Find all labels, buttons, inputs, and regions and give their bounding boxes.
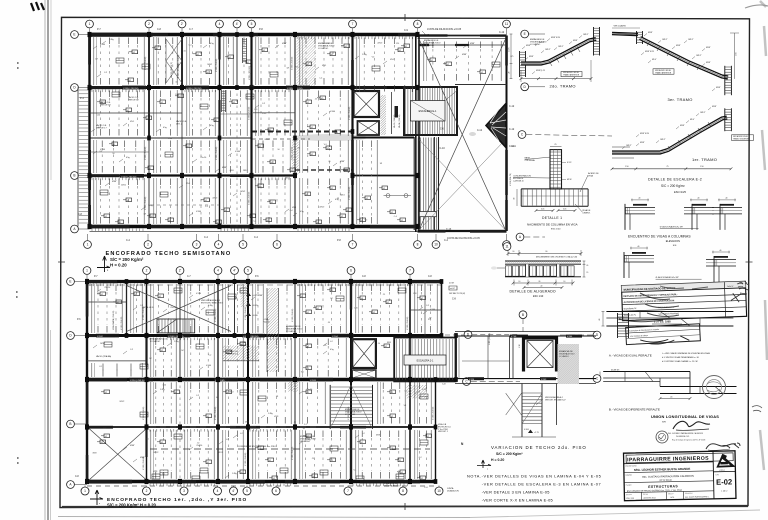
svg-text:V-1: V-1 <box>301 372 304 374</box>
svg-text:V-1: V-1 <box>162 473 165 475</box>
svg-text:1 Ølg: 1 Ølg <box>109 39 114 41</box>
svg-text:ESTRUCTURAS: ESTRUCTURAS <box>648 484 678 489</box>
bottom plan: big X brace panel <box>127 286 232 332</box>
svg-text:C-10: C-10 <box>440 147 446 150</box>
svg-text:VS-1: VS-1 <box>390 59 394 61</box>
svg-text:V-108: V-108 <box>511 336 517 338</box>
svg-text:S/S: S/S <box>673 245 677 247</box>
svg-text:1Ø1/2": 1Ø1/2" <box>545 49 551 51</box>
svg-text:Ø3/8": Ø3/8" <box>282 43 287 45</box>
svg-text:C-2: C-2 <box>208 354 211 356</box>
svg-text:.25: .25 <box>293 422 296 424</box>
svg-text:V-103 (.25X.60): V-103 (.25X.60) <box>143 456 145 470</box>
svg-text:ELEVACION: ELEVACION <box>666 240 680 243</box>
encuentro vigas a columnas: left corner detail <box>633 204 647 206</box>
svg-text:L-2: L-2 <box>226 439 229 441</box>
detalle 1: grid bubble C leader <box>518 131 526 139</box>
svg-text:VACIO (2RA.BA): VACIO (2RA.BA) <box>96 355 111 358</box>
svg-text:3: 3 <box>196 243 198 247</box>
svg-text:LOSA: LOSA <box>263 318 269 321</box>
svg-text:5: 5 <box>242 243 244 247</box>
svg-text:4': 4' <box>233 269 236 273</box>
bottom plan: grid bubbles bottom row <box>81 487 89 495</box>
engineer signature scribble <box>673 421 710 429</box>
stair section 2do tramo: ramp <box>521 39 596 64</box>
top plan: beam under shafts <box>353 137 415 139</box>
svg-text:JUNTA: JUNTA <box>447 487 454 490</box>
svg-text:1.20: 1.20 <box>354 308 358 310</box>
svg-text:V-304: V-304 <box>330 111 335 113</box>
svg-text:Ø3/8": Ø3/8" <box>648 32 653 34</box>
svg-text:+2.75: +2.75 <box>534 432 539 434</box>
svg-text:VER CUADRO: VER CUADRO <box>614 25 627 28</box>
svg-text:.25: .25 <box>328 161 331 163</box>
svg-text:Ø: ADICIONALES Ø= 3/8": Ø: ADICIONALES Ø= 3/8" <box>656 276 680 279</box>
svg-text:VA-14 (.25X.50): VA-14 (.25X.50) <box>398 114 401 128</box>
top plan: row D beam labels <box>122 86 146 90</box>
svg-text:Ø3/8": Ø3/8" <box>712 106 717 108</box>
top plan: beam row A (bottom chord) <box>90 225 418 229</box>
detalle 1: column shaft <box>550 150 562 189</box>
svg-text:Ø tg: Ø tg <box>210 124 214 127</box>
svg-text:2': 2' <box>181 22 184 26</box>
top plan: grid bubbles top row <box>86 20 94 28</box>
svg-text:V-110: V-110 <box>469 379 475 381</box>
stair section 2do tramo: step ticks on ramp <box>549 47 580 66</box>
svg-text:V-303 (.25X.60): V-303 (.25X.60) <box>145 56 147 70</box>
bottom plan: column line 1 (left edge) <box>86 282 88 482</box>
svg-text:11: 11 <box>505 245 509 249</box>
svg-text:-VER CORTE X-X EN LAMINA E-05: -VER CORTE X-X EN LAMINA E-05 <box>482 498 553 503</box>
top plan: column line 2' <box>181 35 183 88</box>
bottom plan: annotation clutter <box>100 292 106 296</box>
svg-text:NACIMIENTO DE COLUMNA EN VIGA: NACIMIENTO DE COLUMNA EN VIGA <box>527 222 578 226</box>
svg-text:Ø3/8: Ø3/8 <box>230 170 234 172</box>
svg-text:.60: .60 <box>514 198 516 200</box>
svg-text:V-106: V-106 <box>524 429 529 431</box>
bottom plan: row B dashed continuation <box>150 426 320 428</box>
bottom plan: beam row E (top chord) <box>87 280 442 283</box>
svg-text:DIBUJO: DIBUJO <box>668 493 674 495</box>
scan artifact: left margin dots <box>16 63 19 463</box>
svg-text:7: 7 <box>409 269 411 273</box>
svg-text:C-4: C-4 <box>319 77 322 79</box>
svg-text:1 Ølg: 1 Ølg <box>268 413 273 415</box>
top plan: grid bubbles left column <box>71 31 79 39</box>
svg-text:1 DE 2: 1 DE 2 <box>721 490 728 492</box>
variacion: bottom ticks <box>512 436 556 438</box>
svg-text:B: B <box>73 174 75 178</box>
svg-text:V-303 (.25X.60): V-303 (.25X.60) <box>292 146 294 160</box>
svg-text:ING. OMAR IPARRAGUIRRE C.: ING. OMAR IPARRAGUIRRE C. <box>685 495 710 499</box>
svg-text:V-104: V-104 <box>196 293 201 295</box>
svg-text:Ø1/4": Ø1/4" <box>652 59 657 61</box>
top plan: label box on treads <box>419 212 436 217</box>
top plan: left edge hatched strip <box>77 88 79 227</box>
svg-text:8: 8 <box>417 243 419 247</box>
svg-text:V-303 (.25X.60): V-303 (.25X.60) <box>216 58 218 72</box>
svg-text:Ø3/8" Ø.25: Ø3/8" Ø.25 <box>645 51 654 53</box>
svg-text:ESC 1/10: ESC 1/10 <box>533 295 544 298</box>
variacion: bubble C right <box>593 375 601 383</box>
svg-text:.10: .10 <box>518 281 520 283</box>
svg-text:VS-1: VS-1 <box>186 183 190 185</box>
svg-text:Ø3/8": Ø3/8" <box>130 445 135 447</box>
svg-text:V-304: V-304 <box>100 44 105 46</box>
svg-text:1 Ølg: 1 Ølg <box>362 54 367 56</box>
bottom plan: axis arrow <box>90 490 103 505</box>
svg-text:1Ø1/2": 1Ø1/2" <box>539 42 545 44</box>
svg-text:V-103 (.25X.60): V-103 (.25X.60) <box>245 306 247 320</box>
bottom plan: column line 8 <box>409 282 411 482</box>
svg-text:V-303 (.25X.60): V-303 (.25X.60) <box>216 146 218 160</box>
svg-text:V-3: V-3 <box>324 144 327 146</box>
svg-text:Ø tg: Ø tg <box>163 126 167 129</box>
svg-text:2Ø1/2: 2Ø1/2 <box>207 64 212 66</box>
svg-text:DETALLE 1: DETALLE 1 <box>542 216 562 220</box>
svg-text:EMPALMES DE: EMPALMES DE <box>530 38 545 41</box>
top plan: annex interior line y84 <box>455 84 507 86</box>
bottom plan: column line 2 <box>146 282 148 482</box>
bottom plan: lower-left X panel <box>89 429 147 481</box>
svg-text:1Ø1/2": 1Ø1/2" <box>696 55 702 57</box>
svg-text:.50: .50 <box>197 443 200 445</box>
svg-text:1.20: 1.20 <box>175 94 179 96</box>
bottom plan: stair treads below shaft <box>329 385 331 429</box>
svg-text:.20: .20 <box>509 72 511 74</box>
svg-text:Ø3/8": Ø3/8" <box>526 45 531 47</box>
beam splice B: upper beam lines <box>603 371 690 373</box>
svg-text:H = 0.20: H = 0.20 <box>491 458 504 462</box>
svg-text:Ø3/8"@.25: Ø3/8"@.25 <box>536 70 545 72</box>
svg-text:.10: .10 <box>512 251 514 253</box>
svg-text:Ø3/8": Ø3/8" <box>462 54 467 56</box>
svg-text:VER DET. 7: VER DET. 7 <box>96 128 108 130</box>
svg-text:VIGA: VIGA <box>588 174 593 177</box>
svg-text:VIGUETA A TODO: VIGUETA A TODO <box>150 338 167 341</box>
stair section 1er tramo: left detail marks <box>612 147 634 158</box>
bottom plan: right edge stair room <box>455 336 457 382</box>
bottom plan: row C beam labels <box>129 378 153 382</box>
top plan: elevator shaft lower <box>358 121 380 135</box>
svg-text:V-1: V-1 <box>404 405 407 407</box>
svg-text:Ø3/8: Ø3/8 <box>387 342 391 344</box>
svg-text:L/4: L/4 <box>670 396 672 398</box>
svg-text:1Ø1/2": 1Ø1/2" <box>700 112 706 114</box>
top plan: row B beam label <box>120 174 144 178</box>
svg-text:1Ø1/2": 1Ø1/2" <box>662 39 668 41</box>
stair section 3er tramo: right dim line <box>734 33 736 79</box>
svg-text:.90: .90 <box>545 251 547 253</box>
top plan: label bands left of escalera <box>391 92 393 134</box>
svg-text:V-104: V-104 <box>567 336 573 338</box>
aligerado: left leader <box>497 267 505 269</box>
bottom plan: row D beam labels <box>96 334 119 338</box>
detalle 1: left dim <box>516 189 518 206</box>
svg-text:DET. 2: DET. 2 <box>176 124 183 126</box>
svg-text:1.50: 1.50 <box>625 166 629 168</box>
bottom plan: column line 4' <box>234 282 236 336</box>
bottom plan: beam row C <box>87 378 456 381</box>
svg-text:L-2: L-2 <box>330 341 333 343</box>
svg-text:C-2: C-2 <box>196 395 199 397</box>
svg-text:1.20: 1.20 <box>97 115 101 117</box>
bottom plan: grid bubbles top row <box>83 267 91 275</box>
svg-text:1 Ølg: 1 Ølg <box>306 439 311 441</box>
svg-text:COLUMNA: COLUMNA <box>525 159 536 162</box>
svg-text:3: 3 <box>183 489 185 493</box>
svg-text:C-4: C-4 <box>290 210 293 212</box>
svg-text:H=0.05: H=0.05 <box>263 322 270 324</box>
stair section 3er tramo: ramp <box>640 38 728 78</box>
svg-text:VIGA CHATA (.25X.20): VIGA CHATA (.25X.20) <box>112 310 115 330</box>
svg-text:2Ø1/2: 2Ø1/2 <box>243 170 248 172</box>
svg-text:.25: .25 <box>311 458 314 460</box>
svg-text:VARIACION DE TECHO 2do. PISO: VARIACION DE TECHO 2do. PISO <box>491 445 587 450</box>
svg-text:EMPALMES DE: EMPALMES DE <box>318 42 333 45</box>
svg-text:VER ESCALERA E-4: VER ESCALERA E-4 <box>201 299 221 302</box>
top plan: beam row C (partial) <box>90 137 253 139</box>
svg-text:ENCUENTRO DE VIGAS A COLUMNAS: ENCUENTRO DE VIGAS A COLUMNAS <box>628 234 691 238</box>
svg-text:TRAMO SIGUIENTE: TRAMO SIGUIENTE <box>733 137 750 140</box>
svg-text:LO LARGO: LO LARGO <box>345 413 356 416</box>
svg-text:-VER DETALE 3 EN LAMINA E-05: -VER DETALE 3 EN LAMINA E-05 <box>482 490 550 495</box>
svg-text:.30: .30 <box>538 281 540 283</box>
scan artifact: bottom page edge shadow <box>58 517 470 518</box>
top plan: elevator shaft upper <box>354 91 380 117</box>
title block: row plano divider <box>624 491 713 493</box>
svg-text:1.575: 1.575 <box>509 48 511 53</box>
svg-text:1Ø1/2: 1Ø1/2 <box>100 343 105 345</box>
encuentro vigas a columnas: right tee detail A <box>692 204 706 206</box>
svg-text:DETALLE DE ESCALERA E-2: DETALLE DE ESCALERA E-2 <box>648 178 702 182</box>
svg-text:C-9: C-9 <box>404 29 409 32</box>
detalle 1: column top dim <box>550 146 562 148</box>
svg-text:.25x.50: .25x.50 <box>196 445 202 447</box>
svg-text:V-307 (.25X.50): V-307 (.25X.50) <box>121 176 137 178</box>
svg-text:B: B <box>69 422 71 426</box>
svg-text:6: 6 <box>275 489 277 493</box>
svg-text:7: 7 <box>347 489 349 493</box>
svg-text:1 Ølg: 1 Ølg <box>208 305 213 307</box>
round notary stamp overlay <box>703 376 726 399</box>
title block: bottom row cells <box>640 492 642 500</box>
svg-text:1/50, 1/25: 1/50, 1/25 <box>626 498 634 500</box>
svg-text:d.1: SIN PISO VIGAS PERALTAD: d.1: SIN PISO VIGAS PERALTADAS h= .30 <box>662 356 699 359</box>
top plan: beam row D <box>90 86 418 89</box>
top plan: beam stirrup tick rows <box>91 90 93 93</box>
svg-text:Ø3/8": Ø3/8" <box>706 47 711 49</box>
svg-text:.25: .25 <box>305 437 308 439</box>
svg-text:V-1: V-1 <box>99 366 102 368</box>
svg-text:2Ø1/2: 2Ø1/2 <box>265 139 270 141</box>
svg-text:V-103: V-103 <box>310 380 316 382</box>
variacion: shaft X brace <box>527 341 553 368</box>
variacion: row C beam lines <box>455 378 596 380</box>
svg-text:.15: .15 <box>586 272 588 274</box>
svg-text:1.50: 1.50 <box>700 166 704 168</box>
svg-text:1Ø1/2: 1Ø1/2 <box>240 191 245 193</box>
svg-text:A.- VIGAS DE IGUAL PERALTE: A.- VIGAS DE IGUAL PERALTE <box>609 354 652 358</box>
scan artifact: top-left corner marks <box>31 2 44 11</box>
svg-text:E: E <box>73 33 75 37</box>
svg-text:H = 0.20: H = 0.20 <box>110 262 127 267</box>
svg-text:.40: .40 <box>540 286 542 288</box>
variacion: row D beam lines <box>455 331 596 333</box>
svg-text:10: 10 <box>437 489 441 493</box>
svg-text:Ø tg: Ø tg <box>126 156 130 159</box>
svg-text:V-103 (.25X.60): V-103 (.25X.60) <box>348 406 350 420</box>
svg-text:.75: .75 <box>666 166 669 168</box>
svg-text:1 Ølg: 1 Ølg <box>160 389 165 391</box>
svg-text:V-303 (.25X.60): V-303 (.25X.60) <box>292 56 294 70</box>
svg-text:C-4: C-4 <box>321 99 324 101</box>
svg-text:1Ø1/2": 1Ø1/2" <box>558 46 564 48</box>
top plan: beam row B <box>90 174 296 176</box>
encuentro entre vigas: left corner detail lower <box>632 252 646 254</box>
svg-text:.25: .25 <box>315 98 318 100</box>
svg-text:Ø tg: Ø tg <box>210 42 214 45</box>
svg-text:8: 8 <box>417 22 419 26</box>
stair section 2do tramo: left column ladder <box>519 51 521 77</box>
svg-text:Ø1/4": Ø1/4" <box>690 119 695 121</box>
svg-text:V-103 (.25X.60): V-103 (.25X.60) <box>433 406 435 420</box>
beam splice A: left column ladder <box>617 313 619 338</box>
svg-text:C-12: C-12 <box>509 105 515 108</box>
svg-text:PLANO: PLANO <box>626 484 632 487</box>
top plan: joist texture <box>93 37 95 85</box>
variacion: left room verticals <box>487 336 489 379</box>
svg-text:2Ø1/2: 2Ø1/2 <box>121 185 126 187</box>
svg-text:L-2: L-2 <box>362 433 365 435</box>
svg-text:1.20: 1.20 <box>254 109 257 111</box>
aligerado: brick row <box>505 276 581 278</box>
svg-text:.05: .05 <box>586 265 588 267</box>
svg-text:V-303 (.25X.60): V-303 (.25X.60) <box>249 191 251 205</box>
svg-text:VIGUETA A TODO: VIGUETA A TODO <box>286 328 303 331</box>
svg-text:C-2: C-2 <box>262 103 265 105</box>
variacion: shaft thick walls <box>524 338 557 372</box>
svg-text:S/C = 200 Kg/m²: S/C = 200 Kg/m² <box>496 452 523 456</box>
top plan: triangular balcony <box>486 104 506 148</box>
top plan: annex big X brace <box>419 39 506 230</box>
svg-text:4: 4 <box>219 22 221 26</box>
beam splice B: bottom dim <box>660 398 690 400</box>
svg-text:C-2: C-2 <box>130 349 133 351</box>
top plan: cross-braced duct bay <box>165 39 167 83</box>
bottom plan: right edge upper <box>441 282 443 336</box>
svg-text:.25x.50: .25x.50 <box>170 307 176 309</box>
svg-text:L-2: L-2 <box>240 433 243 435</box>
svg-text:11: 11 <box>505 22 509 26</box>
top plan: annex top beam <box>418 35 507 37</box>
bottom plan: column line 5 <box>247 282 249 482</box>
svg-text:V-104: V-104 <box>430 309 435 311</box>
svg-text:V-303 (.25X.60): V-303 (.25X.60) <box>145 146 147 160</box>
svg-text:C-2: C-2 <box>104 72 107 74</box>
bottom plan: column line 6 <box>294 282 296 482</box>
svg-text:S/C = 200 Kg/m² H = 0.20: S/C = 200 Kg/m² H = 0.20 <box>107 502 157 507</box>
svg-text:P-8: P-8 <box>259 28 263 31</box>
svg-text:LO LARGO: LO LARGO <box>318 47 329 50</box>
stair section 2do tramo: left dim <box>510 34 512 79</box>
svg-text:.40: .40 <box>637 246 639 248</box>
svg-text:.975: .975 <box>510 56 513 58</box>
svg-text:ENSANCHE DE: ENSANCHE DE <box>286 325 301 328</box>
svg-text:1Ø1/2": 1Ø1/2" <box>583 34 589 36</box>
svg-text:C-13: C-13 <box>446 228 452 231</box>
svg-text:5: 5 <box>246 489 248 493</box>
handwritten margin marks right <box>737 281 747 287</box>
top plan: column line 2 <box>148 35 150 139</box>
svg-text:.40: .40 <box>638 198 640 200</box>
svg-text:VS-1: VS-1 <box>322 65 326 67</box>
bottom plan: right wing room dividers <box>410 309 442 311</box>
svg-text:5: 5 <box>251 22 253 26</box>
stair section 2do tramo: bubble D leader <box>521 83 529 91</box>
stair section 3er tramo: top landing <box>612 34 638 35</box>
svg-text:C-12: C-12 <box>477 130 483 132</box>
svg-text:P-8: P-8 <box>337 239 341 242</box>
scan artifact: right edge smudges <box>760 1 767 470</box>
svg-text:2.50: 2.50 <box>456 357 458 360</box>
svg-text:C-8: C-8 <box>452 298 457 301</box>
svg-text:V-103 (.25X.60): V-103 (.25X.60) <box>407 316 409 330</box>
variacion: bubble B top <box>519 311 527 319</box>
svg-text:B: B <box>522 313 524 317</box>
svg-text:.50: .50 <box>327 322 330 324</box>
svg-text:1 Ølg: 1 Ølg <box>148 205 153 207</box>
svg-text:.25: .25 <box>383 294 386 296</box>
detalle 1: beam bottom dims <box>536 210 553 212</box>
svg-text:7: 7 <box>352 22 354 26</box>
svg-text:V-104: V-104 <box>332 336 338 338</box>
top plan: stair treads below escalera <box>413 137 415 230</box>
bottom plan: right edge lower <box>435 382 437 482</box>
svg-text:C-4: C-4 <box>253 221 256 223</box>
variacion: below-C stair walls <box>521 384 523 438</box>
bottom plan: column joint blobs <box>85 279 89 284</box>
svg-text:E: E <box>524 32 526 36</box>
stair section 1er tramo: step ticks <box>668 122 711 151</box>
svg-text:V-303 (.25X.60): V-303 (.25X.60) <box>145 196 147 210</box>
round college stamp small <box>656 431 668 443</box>
svg-text:V-103: V-103 <box>541 379 547 381</box>
svg-text:8: 8 <box>402 489 404 493</box>
bottom plan: elevator shaft <box>352 339 376 368</box>
svg-text:DILATACION: DILATACION <box>447 490 459 493</box>
svg-text:1.20: 1.20 <box>163 384 167 386</box>
svg-text:V-3: V-3 <box>372 57 375 59</box>
svg-text:Ø3/8": Ø3/8" <box>716 87 721 89</box>
svg-text:6: 6 <box>350 269 352 273</box>
svg-text:V-3: V-3 <box>365 219 368 221</box>
svg-text:Ø3/8": Ø3/8" <box>340 161 345 163</box>
title block: row diseno divider <box>624 481 713 483</box>
svg-text:1.20: 1.20 <box>103 428 107 430</box>
svg-text:C-11: C-11 <box>511 146 517 148</box>
svg-text:CONSIDERAR EN TECHO DEL 3er. P: CONSIDERAR EN TECHO DEL 3er. PISO <box>238 445 276 448</box>
bottom plan: beam row B <box>87 426 436 428</box>
svg-text:3er. TRAMO: 3er. TRAMO <box>668 97 693 102</box>
svg-text:B.- VIGAS DE DIFERENTE PERALT: B.- VIGAS DE DIFERENTE PERALTE <box>609 407 660 411</box>
top plan: grid bubbles bottom row <box>84 241 92 249</box>
bottom plan: beam row D <box>87 334 442 337</box>
svg-text:.25x.50: .25x.50 <box>104 287 110 289</box>
svg-text:VACIO O.B.: VACIO O.B. <box>128 96 139 99</box>
svg-text:C-7: C-7 <box>189 28 194 31</box>
svg-text:1Ø1/2": 1Ø1/2" <box>688 39 694 41</box>
